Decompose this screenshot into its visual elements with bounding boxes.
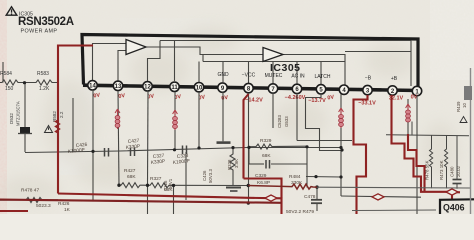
svg-text:0V: 0V	[93, 93, 101, 100]
svg-text:R329: R329	[260, 138, 272, 144]
svg-text:−VCC: −VCC	[242, 73, 256, 79]
svg-text:D532: D532	[9, 113, 14, 124]
svg-text:+B: +B	[391, 76, 398, 82]
svg-text:R584: R584	[0, 71, 12, 77]
svg-text:68K: 68K	[127, 174, 136, 180]
svg-text:1.2K: 1.2K	[39, 86, 50, 92]
svg-text:2.2: 2.2	[59, 111, 64, 118]
svg-text:150: 150	[5, 86, 14, 92]
svg-text:C426: C426	[202, 170, 207, 181]
svg-text:3.9K: 3.9K	[234, 159, 239, 168]
svg-text:11: 11	[171, 85, 178, 91]
svg-text:0V: 0V	[221, 95, 229, 102]
svg-text:MTZJ/15C7A: MTZJ/15C7A	[16, 101, 21, 126]
svg-text:1K: 1K	[64, 207, 71, 213]
svg-text:50V3.3: 50V3.3	[208, 169, 213, 183]
svg-text:C478: C478	[304, 194, 316, 200]
svg-text:−B: −B	[365, 76, 372, 82]
svg-text:50V1: 50V1	[168, 178, 173, 189]
svg-text:GND: GND	[217, 72, 229, 78]
svg-text:0V: 0V	[118, 93, 126, 100]
svg-text:R478 47: R478 47	[21, 188, 39, 194]
svg-text:10: 10	[462, 103, 467, 108]
svg-text:50V2.2 R479: 50V2.2 R479	[286, 209, 314, 214]
svg-text:MUTEC: MUTEC	[265, 73, 283, 79]
svg-text:−14.2V: −14.2V	[245, 98, 263, 104]
svg-text:68K: 68K	[262, 153, 271, 159]
svg-text:14: 14	[89, 84, 96, 90]
svg-text:R583: R583	[37, 71, 49, 77]
svg-text:LATCH: LATCH	[314, 74, 330, 80]
svg-text:R473 10K: R473 10K	[439, 160, 444, 180]
svg-text:R484: R484	[289, 174, 301, 180]
svg-text:−33.1V: −33.1V	[358, 101, 376, 107]
svg-text:Q406: Q406	[443, 203, 465, 213]
svg-text:R427: R427	[124, 168, 136, 174]
svg-text:0V: 0V	[327, 95, 335, 102]
svg-text:10: 10	[196, 86, 203, 92]
svg-text:13: 13	[115, 84, 122, 90]
svg-text:−4.260V: −4.260V	[285, 95, 306, 101]
svg-text:R327: R327	[150, 176, 162, 182]
svg-text:−13.7V: −13.7V	[308, 98, 326, 104]
svg-text:C480: C480	[450, 166, 455, 177]
svg-text:R426: R426	[58, 201, 70, 207]
svg-text:5023.3: 5023.3	[36, 203, 51, 209]
svg-text:RSN3502A: RSN3502A	[18, 16, 74, 28]
svg-text:R328: R328	[227, 159, 232, 170]
svg-text:R439: R439	[456, 101, 461, 112]
svg-text:12: 12	[144, 85, 151, 91]
svg-text:C5283: C5283	[277, 115, 282, 128]
svg-text:AC IN: AC IN	[291, 74, 305, 80]
svg-text:G533: G533	[284, 116, 289, 127]
svg-text:POWER AMP: POWER AMP	[21, 29, 58, 35]
